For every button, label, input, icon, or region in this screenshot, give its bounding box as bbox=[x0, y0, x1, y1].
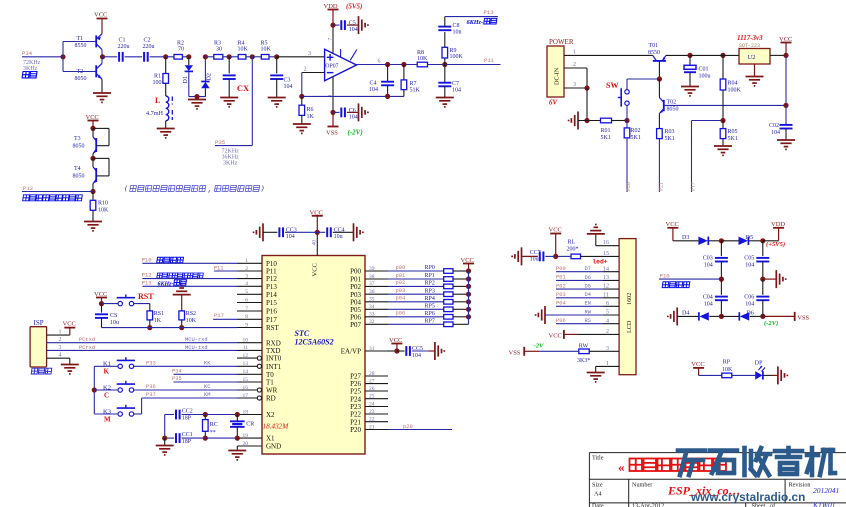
node P12 bbox=[90, 189, 95, 194]
svg-text:5K1: 5K1 bbox=[665, 136, 675, 142]
pin 7 (P16) name+number bbox=[245, 306, 277, 316]
IC U3 STC12C5A60S2 bbox=[262, 256, 365, 455]
svg-text:Title: Title bbox=[592, 454, 604, 461]
resistor RP6 bbox=[425, 311, 454, 319]
wire R04 bottom bbox=[722, 90, 724, 121]
svg-text:P13: P13 bbox=[484, 9, 494, 16]
pin 36 (P03) name+number+stub bbox=[350, 289, 388, 299]
svg-text:EA/VP: EA/VP bbox=[341, 348, 361, 356]
svg-text:VSS: VSS bbox=[509, 350, 521, 357]
svg-text:T2: T2 bbox=[77, 69, 84, 75]
capacitor C2 bbox=[143, 38, 155, 62]
wire X2 net a bbox=[165, 414, 174, 416]
VCC supply (T3) bbox=[86, 114, 99, 121]
wire CC5 gnd stem bbox=[429, 350, 435, 352]
wire K3 riser bbox=[141, 398, 143, 414]
svg-text:R03: R03 bbox=[665, 129, 675, 135]
pin INT0 stub+bubble bbox=[237, 356, 262, 360]
wire RP4 left bbox=[388, 301, 444, 303]
svg-text:C8: C8 bbox=[453, 23, 460, 29]
ground (LCD pin16, above) bbox=[587, 225, 605, 234]
pin 18 (X2) name+number bbox=[243, 409, 276, 419]
VCC supply (MCU) bbox=[310, 209, 323, 216]
wire C4 top bbox=[387, 65, 389, 82]
pin 31 (EA/VP) name+number+stub bbox=[341, 346, 388, 356]
connector ISP bbox=[30, 319, 46, 367]
wire VCC to RP bbox=[699, 374, 722, 376]
svg-text:10K: 10K bbox=[417, 56, 428, 62]
svg-text:RS2: RS2 bbox=[186, 311, 196, 317]
svg-text:VSS: VSS bbox=[326, 129, 338, 136]
wire pin4 gnd stem bbox=[69, 358, 71, 364]
wire RS2 top bbox=[181, 295, 183, 311]
wire R6 top bbox=[301, 96, 303, 105]
pin P12 stub bbox=[237, 278, 262, 280]
svg-text:P34: P34 bbox=[22, 50, 33, 57]
resistor R02 bbox=[624, 128, 641, 141]
ground (CX) bbox=[220, 98, 238, 107]
pin T1 stub bbox=[237, 381, 262, 383]
svg-text:R05: R05 bbox=[728, 129, 738, 135]
wire LCD pin1 bbox=[596, 365, 619, 367]
wire gnd to CC3 bbox=[263, 231, 277, 233]
wire pin14 stub bbox=[603, 271, 619, 273]
svg-text:X2: X2 bbox=[266, 411, 275, 419]
wire P37 to RD bbox=[142, 397, 237, 399]
node T01 base/SW bbox=[657, 76, 662, 81]
wire node B to VDD bbox=[763, 240, 779, 242]
wire P03 to LCD bbox=[556, 297, 603, 299]
svg-text:P17: P17 bbox=[214, 312, 224, 319]
wire node A to D5 bbox=[721, 240, 738, 242]
node RC bottom bbox=[203, 436, 208, 441]
svg-text:3: 3 bbox=[308, 51, 311, 57]
svg-text:1K: 1K bbox=[307, 114, 315, 120]
wire DP to gnd bbox=[763, 374, 771, 376]
pin 19 (X1) name+number bbox=[243, 433, 276, 443]
VDD supply (pump out) bbox=[771, 221, 785, 228]
resistor R9 bbox=[442, 47, 464, 60]
resistor RP4 bbox=[425, 296, 454, 304]
resistor R2 bbox=[174, 40, 184, 59]
node CX bbox=[227, 54, 232, 59]
wire C4 bottom bbox=[387, 85, 389, 96]
pin RST stub bbox=[237, 327, 262, 329]
wire VCC stem mcu bbox=[316, 216, 318, 233]
wire X1 net a bbox=[165, 437, 174, 439]
svg-text:M: M bbox=[104, 415, 111, 423]
wire C05 top bbox=[762, 241, 764, 256]
capacitor C05 bbox=[744, 256, 769, 269]
crystal CR bbox=[230, 415, 254, 439]
ground (MCU GND) bbox=[228, 451, 246, 460]
op-amp U1 OP07 bbox=[325, 49, 357, 81]
wire rail to U2 bbox=[690, 54, 739, 56]
node R1/R2 bbox=[163, 54, 168, 59]
wire C06 top bbox=[762, 279, 764, 295]
wire D4 to node C bbox=[709, 315, 721, 317]
node CS/RST bbox=[99, 301, 104, 306]
svg-text:STC: STC bbox=[295, 329, 310, 338]
svg-text:RP7: RP7 bbox=[425, 319, 435, 325]
svg-text:T1: T1 bbox=[77, 36, 84, 42]
svg-text:P21: P21 bbox=[350, 418, 361, 426]
wire D2 cathode up bbox=[204, 57, 206, 82]
ground (C3) bbox=[268, 98, 286, 107]
wire feedback bbox=[302, 95, 404, 97]
svg-text:P24: P24 bbox=[350, 395, 361, 403]
capacitor C5 bbox=[341, 20, 358, 33]
pin 8 (P17) name+number bbox=[245, 314, 277, 324]
svg-text:C02: C02 bbox=[769, 123, 779, 129]
node R04/R05/P17 bbox=[720, 118, 725, 123]
resistor RP0 bbox=[425, 265, 454, 273]
svg-text:(+5V5): (+5V5) bbox=[766, 241, 785, 248]
wire mid right gnd bbox=[763, 278, 777, 280]
svg-text:VCC: VCC bbox=[312, 263, 319, 276]
svg-text:C2: C2 bbox=[144, 38, 151, 44]
svg-text:DC-IN: DC-IN bbox=[554, 67, 561, 85]
svg-text:P21: P21 bbox=[658, 182, 664, 191]
wire P12 net bbox=[22, 191, 93, 193]
svg-text:P17: P17 bbox=[266, 316, 277, 324]
svg-text:P02: P02 bbox=[350, 283, 361, 291]
wire pin2 bbox=[564, 333, 578, 335]
svg-text:p02: p02 bbox=[396, 280, 406, 286]
wire caps common bbox=[164, 415, 166, 439]
svg-text:100K: 100K bbox=[728, 87, 742, 93]
wire CS top bbox=[101, 304, 103, 313]
wire C3 bottom bbox=[276, 79, 278, 98]
svg-text:VCC: VCC bbox=[94, 291, 107, 298]
svg-text:(-2V): (-2V) bbox=[764, 320, 778, 327]
wire R4 to P35 node bbox=[246, 56, 252, 58]
wire node C to D6 bbox=[721, 315, 739, 317]
wire P01 to LCD bbox=[556, 279, 603, 281]
wire rail stem bbox=[468, 264, 470, 272]
svg-text:T02: T02 bbox=[667, 99, 677, 105]
svg-text:104: 104 bbox=[369, 87, 378, 93]
svg-text:104: 104 bbox=[284, 84, 293, 90]
wire T3 emitter bbox=[92, 154, 94, 159]
capacitor CC2 bbox=[176, 408, 193, 421]
wire RST btn to RS1 bbox=[134, 303, 150, 305]
wire RST rail bbox=[102, 327, 238, 329]
resistor RS1 bbox=[147, 311, 164, 324]
capacitor CC4 bbox=[327, 227, 344, 240]
svg-text:5K1: 5K1 bbox=[601, 135, 611, 141]
wire ground stem clamp bbox=[196, 97, 198, 100]
node T3 collector bbox=[90, 126, 95, 131]
svg-text:CR: CR bbox=[246, 422, 254, 428]
node X2 bbox=[235, 412, 240, 417]
svg-text:10K: 10K bbox=[238, 47, 249, 53]
wire C1 to C2 bbox=[125, 56, 142, 58]
svg-text:P04: P04 bbox=[556, 301, 566, 307]
pin P11 stub bbox=[237, 270, 262, 272]
wire D1 anode bbox=[188, 57, 190, 65]
wire CX node to R4 bbox=[229, 56, 238, 58]
svg-text:10u: 10u bbox=[334, 234, 343, 240]
svg-text:104: 104 bbox=[745, 263, 754, 269]
svg-text:2: 2 bbox=[304, 67, 307, 73]
wire pin2 drop bbox=[586, 68, 588, 88]
LCD pin 12 (D5) bbox=[556, 283, 609, 289]
pin RXD stub bbox=[237, 342, 262, 344]
connector LCD 1602 bbox=[619, 239, 636, 375]
node C01 rail bbox=[687, 53, 692, 58]
svg-text:Revision: Revision bbox=[789, 482, 811, 489]
wire C06 bottom bbox=[762, 300, 764, 316]
svg-text:VCC: VCC bbox=[666, 221, 679, 228]
svg-text:104: 104 bbox=[452, 87, 461, 93]
capacitor C8 bbox=[438, 23, 461, 35]
wire pin7 (V+) bbox=[332, 25, 334, 53]
pin 21 (P20) name+number+stub bbox=[350, 424, 388, 434]
svg-text:R9: R9 bbox=[450, 48, 457, 54]
node keys common bbox=[92, 387, 97, 392]
resistor RW bbox=[577, 343, 590, 363]
node RS1/RST rail bbox=[147, 325, 152, 330]
svg-text:X1: X1 bbox=[266, 435, 275, 443]
wire RL to node bbox=[556, 255, 571, 257]
VCC supply (LED) bbox=[691, 361, 704, 368]
wire P11 net bbox=[445, 64, 501, 66]
svg-text:INT1: INT1 bbox=[266, 363, 282, 371]
wire X2 net c bbox=[205, 414, 237, 416]
svg-text:p01: p01 bbox=[396, 273, 406, 279]
pin 9 (RST) name+number bbox=[245, 322, 279, 332]
wire GND pin drop bbox=[236, 446, 238, 451]
wire P17 link bbox=[692, 120, 724, 122]
svg-text:RP0: RP0 bbox=[425, 265, 435, 271]
ground (C01) bbox=[681, 87, 699, 96]
svg-text:104: 104 bbox=[349, 27, 358, 33]
svg-text:220u: 220u bbox=[143, 44, 155, 50]
wire pin13 stub bbox=[603, 279, 619, 281]
svg-text:D1: D1 bbox=[183, 76, 189, 83]
capacitor C7 bbox=[438, 81, 461, 93]
svg-text:104: 104 bbox=[704, 301, 713, 307]
pin 4 (P13) name+number bbox=[245, 281, 277, 291]
node D1-D2 ground bbox=[194, 94, 199, 99]
pin 2 (P11) name+number bbox=[245, 266, 277, 276]
resistor RS2 bbox=[179, 311, 197, 324]
svg-text:K1W01: K1W01 bbox=[812, 501, 836, 507]
wire R7 top bbox=[403, 65, 405, 80]
wire T1 emitter to node bbox=[101, 50, 103, 57]
VCC supply (LCD backlight) bbox=[549, 227, 562, 234]
svg-text:VCC: VCC bbox=[779, 36, 792, 43]
svg-text:C03: C03 bbox=[703, 256, 713, 262]
svg-text:10K: 10K bbox=[186, 318, 197, 324]
pin P17 stub bbox=[237, 318, 262, 320]
wire RP3 left bbox=[388, 293, 444, 295]
svg-text:CC7: CC7 bbox=[530, 250, 541, 256]
inductor L 4.7mH bbox=[146, 96, 172, 121]
ground (C6) bbox=[359, 103, 368, 121]
pin P10 stub bbox=[237, 262, 262, 264]
svg-text:P35: P35 bbox=[172, 376, 182, 382]
svg-text:Date: Date bbox=[592, 502, 604, 507]
svg-text:Number: Number bbox=[632, 482, 652, 489]
pin RD stub+bubble bbox=[237, 396, 262, 400]
pin 26 (P25) name+number+stub bbox=[350, 386, 388, 396]
wire C02 to ground bbox=[785, 129, 787, 141]
wire VCC stem rst bbox=[101, 298, 103, 304]
svg-text:P10: P10 bbox=[142, 257, 153, 264]
svg-text:4.7mH: 4.7mH bbox=[146, 110, 164, 117]
wire R04 top bbox=[722, 55, 724, 79]
wire T01 collector rail bbox=[666, 54, 690, 56]
wire C7 top bbox=[444, 65, 446, 83]
svg-text:R01: R01 bbox=[601, 128, 611, 134]
pin 5 (P14) name+number bbox=[245, 289, 277, 299]
wire RW res to VSS bbox=[540, 350, 579, 352]
ground (ISP) bbox=[61, 365, 79, 374]
wire RS1 bottom bbox=[149, 320, 151, 328]
node D2 top bbox=[203, 54, 208, 59]
svg-text:P00: P00 bbox=[350, 268, 361, 276]
capacitor CC3 bbox=[279, 227, 296, 240]
wire L to ground bbox=[165, 121, 167, 129]
resistor R3 bbox=[214, 40, 223, 59]
wire RP2 right bbox=[453, 285, 469, 287]
wire to C02 bbox=[785, 105, 787, 125]
LCD pin 11 (D4) bbox=[556, 292, 609, 298]
wire RP0 right bbox=[453, 270, 469, 272]
wire P11 net to pin2 bbox=[214, 270, 237, 272]
svg-text:RP6: RP6 bbox=[425, 311, 435, 317]
diode D5 bbox=[739, 235, 754, 245]
ground (LCD RW) bbox=[536, 306, 545, 324]
node R9/C7/P11 bbox=[442, 62, 447, 67]
svg-text:10K: 10K bbox=[98, 207, 109, 213]
net name 信号电压·等效测量 bbox=[23, 195, 83, 201]
svg-text:8550: 8550 bbox=[75, 43, 87, 49]
transistor T3 8050 diode-connected bbox=[73, 128, 110, 153]
svg-text:P33: P33 bbox=[146, 360, 156, 366]
pin X2 stub bbox=[237, 414, 262, 416]
node RP2 rail bbox=[466, 284, 471, 289]
svg-text:18P: 18P bbox=[182, 415, 192, 421]
svg-text:3KHz: 3KHz bbox=[23, 66, 38, 72]
svg-text:3: 3 bbox=[573, 82, 576, 88]
node VSS/C6 bbox=[330, 110, 335, 115]
capacitor C1 bbox=[118, 38, 130, 62]
net name 高频方波 bbox=[662, 282, 690, 288]
wire R8 to node bbox=[428, 64, 445, 66]
wire X1 net c bbox=[205, 437, 237, 439]
pin 10 (RXD) name+number bbox=[243, 338, 281, 348]
wire P34 input bbox=[22, 56, 63, 58]
svg-text:p04: p04 bbox=[396, 296, 406, 302]
resistor RP1 bbox=[425, 273, 454, 281]
svg-text:104: 104 bbox=[771, 130, 780, 136]
node C4 bottom bbox=[385, 94, 390, 99]
LCD pin 5 (RW) bbox=[585, 309, 609, 315]
wire RP6 left bbox=[388, 316, 444, 318]
wire C8 to P13 bbox=[444, 17, 446, 27]
wire X2 net b bbox=[182, 414, 206, 416]
wire T2 base bbox=[63, 71, 96, 73]
wire T01 base bbox=[658, 61, 660, 79]
wire R10 to ground bbox=[92, 210, 94, 221]
svg-text:P17: P17 bbox=[691, 182, 697, 191]
svg-text:RST: RST bbox=[266, 324, 280, 332]
ground (CC3, left) bbox=[254, 223, 263, 241]
wire VSS stem bbox=[332, 112, 334, 126]
node decoupling bbox=[315, 230, 320, 235]
wire p20 net bbox=[388, 429, 452, 431]
wire C04 bottom bbox=[720, 300, 722, 316]
node RP3 rail bbox=[466, 292, 471, 297]
wire C7 bottom bbox=[444, 86, 446, 97]
wire -input drop bbox=[301, 73, 303, 97]
capacitor C3 bbox=[270, 75, 292, 90]
wire RP1 right bbox=[453, 278, 469, 280]
regulator U2 1117-3v3 bbox=[737, 34, 770, 64]
svg-text:CC1: CC1 bbox=[182, 432, 193, 438]
resistor RP5 bbox=[425, 304, 454, 312]
net name 6KHz-square bbox=[467, 18, 497, 26]
wire P35 node to R5 bbox=[252, 56, 261, 58]
svg-text:7: 7 bbox=[328, 38, 334, 41]
node R6/feedback bbox=[299, 94, 304, 99]
VSS supply (LCD contrast, sideways) bbox=[509, 347, 540, 357]
svg-text:p03: p03 bbox=[396, 288, 406, 294]
wire LCD pin3 stub bbox=[589, 350, 619, 352]
ground (crystal caps) bbox=[156, 446, 174, 455]
svg-text:10K: 10K bbox=[722, 367, 733, 373]
wire pin6 stub bbox=[603, 305, 619, 307]
svg-text:INT0: INT0 bbox=[266, 355, 282, 363]
wire RP2 left bbox=[388, 285, 444, 287]
junction base node bbox=[60, 54, 65, 59]
button RST bbox=[117, 294, 135, 305]
diode D6 bbox=[739, 311, 753, 321]
svg-text:T01: T01 bbox=[649, 43, 659, 49]
svg-text:DP: DP bbox=[755, 361, 763, 367]
svg-text:8050: 8050 bbox=[75, 76, 87, 82]
port P34 net label bbox=[22, 50, 41, 72]
svg-text:C01: C01 bbox=[699, 66, 709, 72]
svg-text:6: 6 bbox=[378, 59, 381, 65]
node X1 bbox=[235, 436, 240, 441]
svg-text:www.crystalradio.cn: www.crystalradio.cn bbox=[690, 490, 805, 504]
svg-text:p06: p06 bbox=[396, 311, 406, 317]
capacitor C03 bbox=[703, 256, 728, 269]
ground (input, left) bbox=[569, 112, 578, 130]
svg-text:RS1: RS1 bbox=[154, 311, 164, 317]
wire C04 top bbox=[720, 279, 722, 295]
wire T2 emitter to ground bbox=[101, 79, 103, 93]
resistor RL bbox=[567, 239, 581, 258]
wire VCC stem EA bbox=[396, 344, 398, 352]
svg-text:P06: P06 bbox=[556, 318, 566, 324]
wire K1 to INT1 bbox=[134, 365, 237, 367]
pin 33 (P06) name+number+stub bbox=[350, 312, 388, 322]
wire to op-amp +input bbox=[277, 56, 325, 58]
connector DC-IN bbox=[547, 46, 564, 107]
pin P15 stub bbox=[237, 302, 262, 304]
svg-text:P02: P02 bbox=[556, 283, 566, 289]
wire P35 to T1 bbox=[174, 381, 238, 383]
wire CC3 to node bbox=[285, 231, 317, 233]
wire C05 bottom bbox=[762, 262, 764, 280]
ground (pump bottom left) bbox=[668, 307, 677, 325]
capacitor C4 bbox=[369, 81, 394, 93]
